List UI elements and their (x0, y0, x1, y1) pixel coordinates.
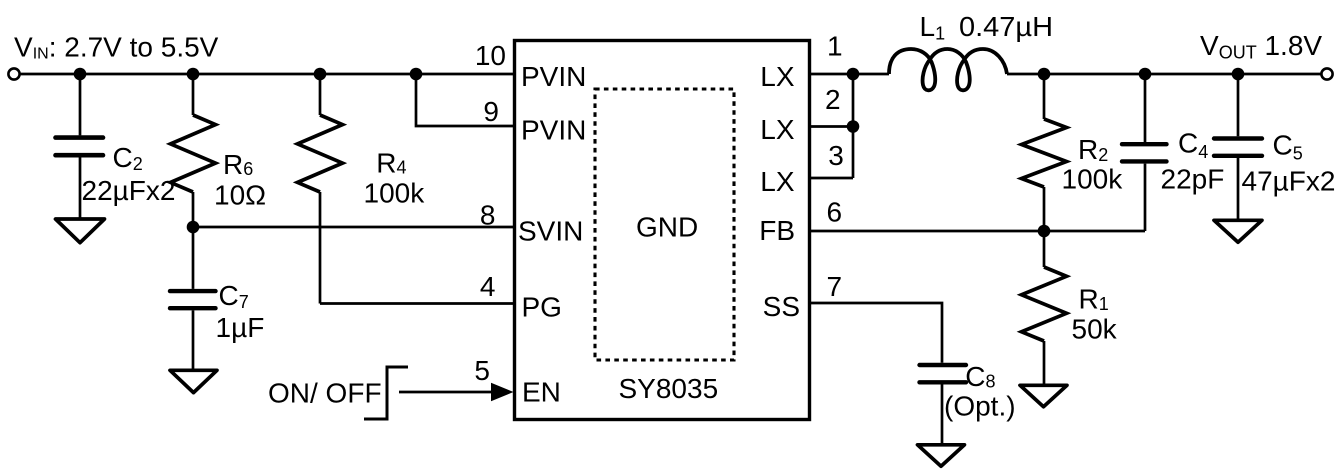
svg-text:7: 7 (827, 271, 843, 302)
GND dashed block (595, 89, 734, 360)
wire LX bus (852, 74, 855, 178)
wire FB (810, 230, 1145, 233)
wire PG (320, 302, 514, 305)
inductor L1 (889, 49, 1007, 90)
wire SS (810, 303, 942, 363)
capacitor C5 (1214, 74, 1262, 219)
svg-text:100k: 100k (364, 178, 426, 209)
wire LX3 (810, 177, 853, 180)
svg-text:10Ω: 10Ω (214, 180, 266, 211)
svg-text:VOUT 1.8V: VOUT 1.8V (1200, 30, 1322, 63)
input terminal (8, 68, 19, 79)
svg-text:PVIN: PVIN (521, 114, 586, 145)
ground C8 (918, 445, 965, 467)
capacitor C8 (920, 365, 967, 444)
node VIN-PVIN9 (410, 68, 423, 81)
svg-text:8: 8 (480, 200, 496, 231)
resistor R4 (298, 74, 343, 304)
IC U1 SY8035 (515, 41, 810, 420)
capacitor C2 (56, 74, 104, 218)
resistor R6 (171, 74, 216, 227)
node LX2 (847, 120, 860, 133)
svg-text:LX: LX (760, 166, 795, 197)
wire VOUT rail (1007, 73, 1321, 76)
wire EN arrow (399, 391, 496, 394)
svg-text:LX: LX (760, 114, 795, 145)
svg-text:SS: SS (763, 291, 800, 322)
svg-text:ON/ OFF: ON/ OFF (268, 378, 382, 409)
svg-text:2: 2 (825, 84, 841, 115)
node VIN-C2 (74, 68, 87, 81)
node FB (1038, 225, 1051, 238)
wire SVIN (193, 226, 514, 229)
svg-text:5: 5 (474, 355, 490, 386)
svg-text:GND: GND (636, 212, 698, 243)
resistor R1 (1022, 231, 1067, 384)
svg-text:EN: EN (522, 377, 561, 408)
svg-text:22pF: 22pF (1161, 164, 1225, 195)
wire to PVIN pin 9 (416, 74, 514, 126)
node VOUT-C4 (1139, 68, 1152, 81)
capacitor C4 (1122, 74, 1167, 231)
svg-text:FB: FB (759, 215, 795, 246)
svg-text:0.47µH: 0.47µH (959, 11, 1053, 42)
ground C5 (1214, 220, 1262, 242)
svg-text:PVIN: PVIN (521, 61, 586, 92)
node VIN-R4 (314, 68, 327, 81)
svg-text:1: 1 (827, 31, 843, 62)
output terminal (1321, 68, 1332, 79)
svg-text:LX: LX (760, 61, 795, 92)
svg-text:9: 9 (483, 96, 499, 127)
wire VIN rail (21, 73, 515, 76)
svg-text:SVIN: SVIN (518, 216, 583, 247)
svg-text:50k: 50k (1072, 314, 1118, 345)
capacitor C7 (170, 227, 216, 369)
svg-text:1µF: 1µF (216, 312, 265, 343)
node SVIN net (187, 221, 200, 234)
svg-text:SY8035: SY8035 (619, 373, 719, 404)
step waveform symbol (364, 367, 408, 419)
ground R1 (1020, 385, 1067, 407)
ground C7 (170, 370, 217, 392)
svg-text:100k: 100k (1062, 164, 1124, 195)
svg-text:4: 4 (480, 271, 496, 302)
wire LX to inductor (853, 73, 889, 76)
resistor R2 (1022, 74, 1067, 231)
wire LX2 (810, 125, 853, 128)
node VOUT-C5 (1232, 68, 1245, 81)
svg-text:PG: PG (522, 292, 562, 323)
node LX1 (847, 68, 860, 81)
svg-text:6: 6 (827, 197, 843, 228)
svg-text:22µFx2: 22µFx2 (82, 175, 176, 206)
ground C2 (56, 219, 105, 243)
wire LX1 (810, 73, 853, 76)
node VOUT-R2 (1038, 68, 1051, 81)
svg-text:(Opt.): (Opt.) (944, 391, 1016, 422)
svg-text:10: 10 (475, 40, 506, 71)
node VIN-R6 (187, 68, 200, 81)
svg-text:47µFx2: 47µFx2 (1242, 166, 1336, 197)
svg-text:3: 3 (828, 140, 844, 171)
